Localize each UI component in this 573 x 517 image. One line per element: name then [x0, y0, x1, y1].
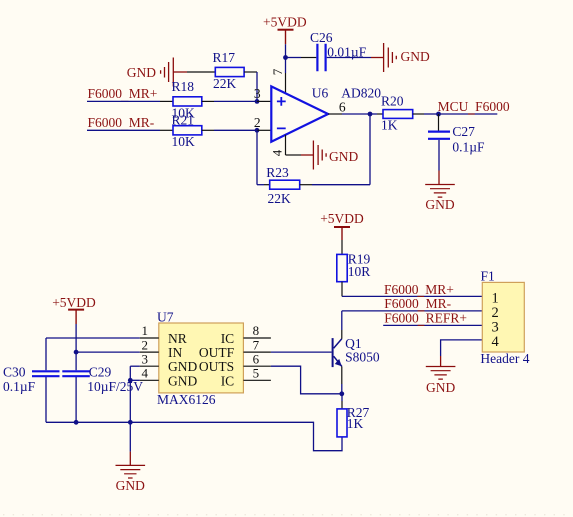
- svg-text:OUTF: OUTF: [199, 345, 235, 360]
- svg-text:1: 1: [142, 323, 149, 338]
- svg-text:S8050: S8050: [345, 350, 380, 365]
- svg-text:2: 2: [142, 337, 149, 352]
- svg-text:F1: F1: [481, 269, 495, 284]
- svg-text:C27: C27: [452, 124, 475, 139]
- svg-text:IC: IC: [221, 373, 235, 388]
- svg-text:0.01µF: 0.01µF: [327, 44, 366, 59]
- svg-text:R20: R20: [381, 93, 404, 108]
- svg-text:4: 4: [269, 149, 284, 156]
- svg-text:6: 6: [253, 351, 260, 366]
- svg-text:0.1µF: 0.1µF: [3, 379, 36, 394]
- svg-text:GND: GND: [425, 197, 454, 212]
- svg-text:C26: C26: [310, 30, 333, 45]
- svg-text:F6000_MR-: F6000_MR-: [88, 115, 155, 130]
- svg-text:+5VDD: +5VDD: [263, 15, 307, 30]
- svg-text:GND: GND: [426, 380, 455, 395]
- svg-text:GND: GND: [116, 478, 145, 493]
- svg-text:R17: R17: [213, 50, 236, 65]
- svg-text:GND: GND: [168, 359, 197, 374]
- svg-text:IN: IN: [168, 345, 182, 360]
- svg-text:OUTS: OUTS: [199, 359, 234, 374]
- svg-text:22K: 22K: [213, 76, 237, 91]
- svg-text:22K: 22K: [268, 191, 292, 206]
- svg-text:F6000_MR-: F6000_MR-: [384, 296, 451, 311]
- svg-text:R21: R21: [172, 113, 195, 128]
- svg-text:1K: 1K: [347, 416, 364, 431]
- svg-text:AD820: AD820: [341, 86, 381, 101]
- svg-text:10µF/25V: 10µF/25V: [87, 379, 143, 394]
- svg-text:Header 4: Header 4: [480, 351, 529, 366]
- svg-text:U7: U7: [157, 310, 174, 325]
- svg-text:8: 8: [253, 323, 260, 338]
- svg-text:10R: 10R: [348, 264, 371, 279]
- svg-text:IC: IC: [221, 331, 235, 346]
- svg-text:R23: R23: [266, 165, 289, 180]
- svg-text:GND: GND: [329, 149, 358, 164]
- svg-text:C29: C29: [89, 364, 112, 379]
- svg-text:U6: U6: [312, 86, 329, 101]
- svg-text:GND: GND: [401, 49, 430, 64]
- svg-text:F6000_REFR+: F6000_REFR+: [384, 311, 467, 326]
- svg-text:5: 5: [253, 366, 260, 381]
- svg-text:7: 7: [270, 68, 285, 75]
- svg-text:GND: GND: [168, 373, 197, 388]
- svg-text:MAX6126: MAX6126: [157, 392, 216, 407]
- svg-text:+5VDD: +5VDD: [320, 211, 364, 226]
- svg-text:GND: GND: [127, 65, 156, 80]
- svg-text:10K: 10K: [172, 134, 196, 149]
- svg-text:3: 3: [254, 86, 261, 101]
- svg-text:C30: C30: [3, 364, 26, 379]
- svg-text:2: 2: [254, 115, 261, 130]
- svg-text:0.1µF: 0.1µF: [452, 139, 485, 154]
- svg-text:4: 4: [142, 366, 149, 381]
- svg-text:6: 6: [339, 100, 346, 115]
- svg-text:+5VDD: +5VDD: [52, 295, 96, 310]
- svg-text:R18: R18: [172, 79, 195, 94]
- svg-text:3: 3: [142, 351, 149, 366]
- svg-text:7: 7: [253, 337, 260, 352]
- svg-text:NR: NR: [168, 331, 187, 346]
- svg-text:1K: 1K: [381, 118, 398, 133]
- svg-text:4: 4: [492, 334, 500, 350]
